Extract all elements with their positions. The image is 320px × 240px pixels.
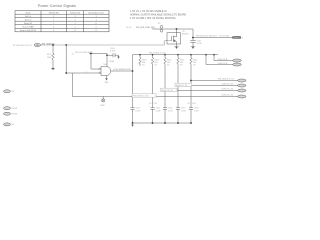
node 32K_SUSCLK: [42, 44, 56, 46]
wire row right B: [205, 54, 232, 65]
svg-text:2: 2: [99, 71, 100, 73]
junction: [65, 72, 67, 74]
svg-text:1: 1: [53, 23, 54, 25]
junctions on ground bus: [132, 122, 134, 124]
svg-text:0: 0: [53, 30, 54, 32]
resistor R170: [47, 45, 54, 68]
wire channel S0: [132, 55, 134, 108]
resistor R160: [164, 55, 171, 123]
off-page connector left 1: [4, 90, 15, 93]
svg-text:U10A: U10A: [109, 60, 114, 63]
capacitor C165: [107, 48, 119, 57]
wire row S1: [190, 79, 238, 82]
svg-text:SUSCLK IN: SUSCLK IN: [70, 12, 81, 14]
ground: [131, 123, 133, 127]
wire row S2: [175, 83, 238, 87]
svg-text:0: 0: [53, 26, 54, 28]
svg-text:PM_SUSCLK_32K: PM_SUSCLK_32K: [149, 53, 166, 55]
wire VCC to gate: [106, 54, 108, 67]
svg-text:SUSCLK_S2: SUSCLK_S2: [176, 85, 188, 87]
svg-text:0: 0: [96, 26, 97, 28]
ground: [174, 47, 178, 49]
svg-text:1A 2B: 1A 2B: [126, 26, 132, 29]
svg-text:1: 1: [96, 19, 97, 21]
wire to SUSCLK terminal: [193, 37, 232, 39]
svg-text:NORMAL /SUSTAT AVAILABLE SIGNA: NORMAL /SUSTAT AVAILABLE SIGNALS TO BOAR…: [130, 13, 186, 16]
junction: [52, 44, 54, 46]
wire bracket to row S0: [72, 73, 132, 97]
capacitor C158: [189, 108, 200, 113]
svg-text:C154: C154: [136, 108, 140, 110]
wire 32K net: [41, 41, 171, 46]
svg-text:0: 0: [96, 23, 97, 25]
svg-text:1: 1: [163, 43, 164, 45]
svg-text:PM_SUSCLK 32K: PM_SUSCLK 32K: [115, 69, 132, 71]
svg-text:5%: 5%: [155, 65, 158, 67]
svg-text:PM 32K EN: PM 32K EN: [49, 12, 60, 14]
svg-text:0: 0: [74, 30, 75, 32]
svg-text:1: 1: [74, 16, 75, 18]
node PM_SUS_PWR_EN label: [126, 26, 156, 29]
svg-text:Susp to Disk (STD): Susp to Disk (STD): [20, 29, 37, 32]
capacitor C156: [163, 108, 174, 113]
ground: [117, 55, 119, 59]
pin label: [86, 71, 87, 73]
gate U10A: [99, 60, 115, 76]
wire row S3: [161, 88, 238, 92]
wire: [89, 53, 107, 55]
capacitor C155: [150, 108, 161, 113]
svg-text:SUSCLK_S2: SUSCLK_S2: [222, 84, 234, 86]
title: [38, 4, 76, 8]
svg-text:1: 1: [96, 16, 97, 18]
svg-text:SUSCLK A: SUSCLK A: [218, 58, 228, 61]
transistor Q5: [167, 29, 189, 47]
svg-text:Doze /2: Doze /2: [25, 19, 32, 21]
svg-text:4 OF U4 AND 1 OFF U5 SIGNAL RO: 4 OF U4 AND 1 OFF U5 SIGNAL ROUTING: [130, 17, 176, 20]
svg-text:5%: 5%: [180, 65, 183, 67]
ground: [51, 68, 55, 70]
svg-text:PM 4B: PM 4B: [12, 114, 18, 116]
svg-text:5%: 5%: [167, 65, 170, 67]
junction: [106, 54, 108, 56]
svg-text:1 OF U4, 1 OF U5 32K USABLE IN: 1 OF U4, 1 OF U5 32K USABLE IN: [130, 10, 167, 13]
terminal: [233, 63, 242, 66]
svg-text:C155: C155: [156, 108, 160, 110]
table text: [20, 12, 105, 32]
svg-text:1: 1: [53, 16, 54, 18]
svg-text:SUSCLK_S0: SUSCLK_S0: [222, 95, 234, 97]
capacitor C154: [130, 108, 141, 113]
resistor R161: [177, 55, 184, 123]
capacitor C157: [176, 108, 187, 113]
svg-text:2: 2: [86, 71, 87, 73]
junction: [176, 28, 178, 30]
wire gate output PM_SUSCLK: [111, 70, 133, 72]
terminal: [238, 89, 246, 92]
bus PM_SUSCLK: [133, 54, 219, 56]
wire: [192, 29, 194, 40]
svg-text:1: 1: [99, 67, 100, 69]
svg-text:Mode: Mode: [26, 12, 31, 14]
svg-text:R170: R170: [47, 54, 52, 56]
svg-text:C156: C156: [168, 108, 172, 110]
pin label: [163, 43, 164, 45]
svg-text:1: 1: [74, 23, 75, 25]
svg-text:1: 1: [74, 19, 75, 21]
resistor R159: [151, 55, 158, 123]
capacitor C167: [190, 40, 202, 47]
svg-text:C158: C158: [194, 108, 198, 110]
node 32K SUSCLK input label: [13, 45, 32, 47]
wire row S0: [132, 94, 238, 98]
off-page connector left 3: [4, 112, 18, 115]
terminal: [233, 59, 242, 62]
svg-text:0.1UF: 0.1UF: [197, 43, 203, 45]
svg-text:Power Control Signals: Power Control Signals: [38, 4, 76, 8]
terminal: [238, 84, 246, 87]
svg-text:Full On: Full On: [25, 16, 31, 18]
svg-text:PM 3B: PM 3B: [12, 108, 18, 110]
off-page connector 1A: [34, 44, 41, 47]
svg-text:(R TO SB): (R TO SB): [220, 36, 230, 38]
wire: [91, 54, 101, 70]
svg-text:1: 1: [74, 26, 75, 28]
junction: [90, 53, 92, 55]
terminal: [238, 79, 246, 82]
resistor R158: [139, 55, 146, 67]
svg-text:PGND: PGND: [100, 105, 106, 107]
off-page connector left 4: [4, 123, 15, 126]
junction: [192, 37, 194, 39]
off-page connector left 2: [4, 107, 18, 110]
wire: [66, 45, 101, 73]
junction: [65, 44, 67, 46]
resistor R162: [190, 55, 197, 123]
svg-text:5%: 5%: [193, 65, 196, 67]
svg-text:0.1UF: 0.1UF: [110, 50, 116, 52]
svg-text:NO STUFF: NO STUFF: [149, 103, 157, 105]
ground flag under gate: [105, 76, 110, 85]
svg-text:Sleep /32: Sleep /32: [24, 23, 32, 25]
svg-text:32 KHZ SUS CLK IN: 32 KHZ SUS CLK IN: [13, 45, 32, 47]
svg-text:SUSCLK: SUSCLK: [233, 37, 241, 39]
junction: [132, 70, 134, 72]
svg-text:5%: 5%: [142, 65, 145, 67]
svg-text:SUSCLK_S3: SUSCLK_S3: [222, 89, 234, 91]
svg-text:PM_SUSCLK_S1: PM_SUSCLK_S1: [218, 79, 235, 81]
ground bus wire: [133, 122, 192, 124]
svg-text:NO STUFF: NO STUFF: [188, 103, 196, 105]
svg-text:7400: 7400: [103, 64, 107, 66]
junctions on bus: [139, 54, 141, 56]
pin label: [72, 52, 75, 55]
svg-text:JP5: JP5: [158, 23, 161, 25]
terminal: [232, 36, 243, 39]
svg-text:PM SUS CLK 32K OUT: PM SUS CLK 32K OUT: [196, 36, 218, 38]
svg-text:SUSCLK B: SUSCLK B: [218, 63, 229, 65]
node +3.3V SUS label: [75, 52, 93, 54]
svg-text:Susp to RAM: Susp to RAM: [22, 25, 34, 28]
svg-text:SUSCLK_S3: SUSCLK_S3: [161, 90, 173, 92]
table frame: [15, 11, 109, 32]
svg-text:PM_SUSCLK_S0: PM_SUSCLK_S0: [133, 96, 150, 98]
svg-text:100K: 100K: [47, 57, 52, 59]
svg-text:2N7002: 2N7002: [182, 33, 189, 35]
ground symbol on row S0: [100, 97, 106, 107]
svg-text:32K SUSCLK OUT: 32K SUSCLK OUT: [88, 12, 105, 14]
terminal: [238, 95, 246, 98]
wire: [152, 28, 193, 30]
notes: [130, 10, 186, 20]
svg-text:C157: C157: [181, 108, 185, 110]
svg-text:1: 1: [53, 19, 54, 21]
svg-text:8: 8: [242, 37, 243, 39]
jumper JP5: [158, 23, 163, 32]
svg-text:0: 0: [96, 30, 97, 32]
wire row right A: [213, 54, 232, 61]
ground: [191, 47, 195, 49]
